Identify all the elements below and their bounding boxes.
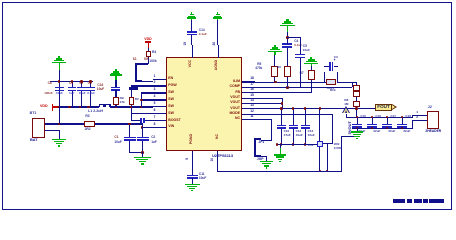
ground G2 green stem xyxy=(115,76,116,81)
pin name MODE (pin 12) xyxy=(222,112,240,116)
R4 bottom stub xyxy=(148,57,149,59)
AGND link to ground xyxy=(341,136,356,137)
ground G12 stem xyxy=(142,152,143,157)
connector BT1 type label BAT xyxy=(30,139,38,143)
cap C13 top stub xyxy=(305,109,306,125)
VOUT tie vertical xyxy=(282,98,283,109)
junction C17 bottom bus xyxy=(386,127,389,130)
capacitor C3 plates xyxy=(329,62,330,71)
ground G8 (C11) xyxy=(185,184,200,186)
junction C16b bottom bus xyxy=(371,127,374,130)
MODE drop vertical xyxy=(332,114,333,144)
pin name SW (pin 3) xyxy=(168,91,174,95)
pin 12 stub xyxy=(242,114,255,115)
capacitor C16 label xyxy=(97,84,103,87)
junction C1 top xyxy=(128,123,131,126)
capacitor C13 label xyxy=(308,130,314,133)
title text blob 2 xyxy=(407,199,412,202)
junction (VDD rail) xyxy=(87,106,90,109)
resistor R8a body (divider) xyxy=(353,85,360,91)
pin 4 stub xyxy=(153,99,167,100)
junction (VDD rail) xyxy=(79,106,82,109)
switch bracket bottom arm xyxy=(135,80,142,82)
capacitor C7 plates xyxy=(77,87,86,89)
C4 top stem xyxy=(287,32,288,44)
ferrite bead FB1 body xyxy=(317,141,323,148)
wire R3 to VIN jog xyxy=(95,123,142,124)
ground G7 stem navy xyxy=(280,144,281,149)
junction (cap top rail) xyxy=(80,80,83,83)
junction R5 riser row xyxy=(274,81,277,84)
J2 pin2 number xyxy=(416,116,418,119)
wire pin12 MODE xyxy=(255,114,332,115)
resistor R7 body xyxy=(308,70,315,81)
JP1 gnd drop xyxy=(266,156,267,161)
JP1 bracket top arm xyxy=(254,138,261,140)
VDD rail after L1 xyxy=(110,106,153,107)
capacitor C17 label xyxy=(390,115,396,118)
snubber C16 top wire xyxy=(115,80,116,87)
C4 bottom stub xyxy=(287,47,288,66)
resistor R3 value xyxy=(85,128,91,131)
cap C9 bottom stub xyxy=(72,90,73,106)
ground G5 green stem xyxy=(274,52,275,55)
jumper JP1 type label xyxy=(257,158,264,161)
wire pin3 SW xyxy=(141,92,153,93)
resistor R9 label xyxy=(120,97,124,100)
cap C12 top stub xyxy=(293,109,294,125)
junction C15 top bus xyxy=(356,116,359,119)
R4 top stub xyxy=(148,48,149,51)
junction VOUT tie mid xyxy=(281,102,284,105)
junction boost riser rail xyxy=(130,106,133,109)
pin 16 number xyxy=(250,88,254,91)
resistor R11 label xyxy=(334,143,340,146)
wire pin18 row to D1 xyxy=(275,82,327,83)
output top bus xyxy=(346,117,413,118)
pin name BOOST (pin 7) xyxy=(168,119,180,123)
ground G10 (AGND) xyxy=(217,12,218,14)
title text blob 3 xyxy=(414,199,422,202)
ground G7 stem green xyxy=(280,148,281,154)
capacitor C16 value xyxy=(97,88,104,91)
junction BT1 pin1 riser xyxy=(58,123,61,126)
pin 13 number xyxy=(250,104,254,107)
R2 bottom stub xyxy=(131,105,132,108)
pin name PGW (pin 2) xyxy=(168,84,176,88)
junction (VDD rail) xyxy=(140,106,143,109)
diode D1 label xyxy=(327,87,335,90)
capacitor C10 plates xyxy=(277,125,286,126)
pin 9 number xyxy=(186,158,189,160)
bead bottom drop xyxy=(319,147,320,171)
cap C13 bottom stub xyxy=(305,129,306,145)
cap C17 top stub xyxy=(387,117,388,124)
pin 20 number xyxy=(213,42,216,46)
capacitor C9 value xyxy=(69,92,74,95)
resistor R6 body xyxy=(284,66,291,77)
pin 15 number xyxy=(250,94,254,97)
pin name VCC xyxy=(189,60,193,67)
junction divider bus xyxy=(355,107,358,110)
resistor R9 value xyxy=(120,101,125,104)
pin 5 stub xyxy=(153,106,167,107)
junction input caps gnd xyxy=(141,151,144,154)
capacitor C5 plates xyxy=(295,54,305,56)
connector J2 body xyxy=(427,111,439,129)
capacitor C18 value xyxy=(403,130,410,133)
ILIM riser xyxy=(274,76,275,82)
junction C10 bus xyxy=(280,107,283,110)
junction C18 top bus xyxy=(401,116,404,119)
pin 15 stub xyxy=(242,98,255,99)
pin 19 number xyxy=(184,42,187,46)
capacitor C12 label xyxy=(296,130,302,133)
wire pin14 VOUT xyxy=(255,103,282,104)
inductor L1 hump2 right xyxy=(109,104,110,107)
snubber C16 to R9 wire xyxy=(115,90,116,97)
pin name NC bottom xyxy=(216,134,220,139)
C11 bottom stub xyxy=(192,178,193,184)
boost cap right wire xyxy=(145,120,153,121)
pin10 drop xyxy=(217,151,218,171)
wire pin4 SW xyxy=(141,99,153,100)
wire BT1 pin2 stub xyxy=(45,130,60,131)
cap C6 top stub xyxy=(90,81,91,87)
NC drop vertical xyxy=(271,119,272,141)
pin 1 stub xyxy=(153,79,167,80)
junction COMP riser xyxy=(286,86,289,89)
power port VDD text (EN) xyxy=(144,38,151,42)
capacitor C6 label xyxy=(88,82,92,85)
pin 16 stub xyxy=(242,92,255,93)
resistor R11 value xyxy=(334,147,341,150)
capacitor C3 plus sign xyxy=(334,59,336,62)
pin name VOUT (pin 14) xyxy=(222,101,240,105)
wire D1 to divider xyxy=(337,82,353,83)
cap C10 bottom stub xyxy=(281,129,282,145)
VCC wire lower xyxy=(191,35,192,45)
FB long jog vertical xyxy=(352,82,353,88)
junction SW tie pin4 xyxy=(140,99,143,102)
resistor R9 body (snubber) xyxy=(113,97,118,105)
pin name VOUT (pin 13) xyxy=(222,107,240,111)
pin name VIN (pin 8) xyxy=(168,125,174,129)
cap C1 top drop xyxy=(129,123,130,136)
pin 7 stub xyxy=(153,120,167,121)
pin name SW (pin 4) xyxy=(168,98,174,102)
J2 pin2 wire xyxy=(412,120,427,121)
junction VIN jog xyxy=(141,126,144,129)
wire BT1 pin1 to R3 xyxy=(45,123,85,124)
pin 3 stub xyxy=(153,92,167,93)
inductor L1 hump2 top xyxy=(105,104,111,105)
capacitor C4 value xyxy=(294,44,302,47)
cap C16b top stub xyxy=(372,117,373,124)
junction gnd bus left xyxy=(276,143,279,146)
VOUT bus xyxy=(255,108,375,109)
boost riser xyxy=(131,107,132,121)
capacitor C15 label xyxy=(360,115,366,118)
resistor R8b body (divider) xyxy=(353,91,360,97)
JP1 top pin wire xyxy=(261,140,272,141)
resistor R8 value xyxy=(344,103,348,106)
capacitor C2b plates xyxy=(137,137,149,139)
capacitor C17 value xyxy=(388,130,395,133)
divider mid link xyxy=(356,97,357,102)
connector BT1 body xyxy=(32,118,45,138)
op-amp U2 TPS6113x body xyxy=(166,57,242,151)
capacitor C12 value xyxy=(296,134,303,137)
capacitor C16b plates xyxy=(367,124,376,126)
J2 pin1 number xyxy=(416,111,418,114)
pin 5 number xyxy=(154,102,156,105)
junction C12 gnd bus xyxy=(292,143,295,146)
pin name FB (pin 16) xyxy=(222,91,240,95)
capacitor C16 label xyxy=(375,115,381,118)
C5 bottom wire xyxy=(300,58,301,87)
cap C12 bottom stub xyxy=(293,129,294,145)
ground G9 (VCC) xyxy=(191,12,192,14)
cap bank riser wire xyxy=(59,70,60,125)
junction (cap top rail) xyxy=(71,80,74,83)
boost cap left wire xyxy=(131,120,140,121)
junction C13 bus xyxy=(304,107,307,110)
resistor R3 label xyxy=(85,115,89,118)
switch S1 label xyxy=(133,58,137,61)
pin 10 number xyxy=(211,158,214,162)
resistor R4 label xyxy=(152,51,156,54)
junction C18 bottom bus xyxy=(401,127,404,130)
pin 11 number xyxy=(250,115,253,118)
junction C10 gnd bus xyxy=(280,143,283,146)
C3 bridge right vertical xyxy=(337,72,338,82)
JP1 bracket vertical xyxy=(254,138,256,157)
VCC wire upper xyxy=(191,20,192,31)
capacitor C1 value xyxy=(114,141,121,144)
capacitor C9 label xyxy=(69,82,73,85)
power net label vertical xyxy=(348,121,352,134)
capacitor C14 plates (VCC decoupling) xyxy=(187,31,197,33)
VOUT drop to bead xyxy=(319,109,320,141)
resistor R3 body xyxy=(84,121,95,127)
capacitor C10 value xyxy=(284,134,291,137)
capacitor C11 value xyxy=(199,177,206,180)
pin 6 number xyxy=(154,109,156,112)
pin 14 stub xyxy=(242,103,255,104)
wire VIN jog to pin8 xyxy=(142,127,153,128)
net label blob (pin2 net) xyxy=(129,87,138,90)
capacitor C5 value xyxy=(303,49,310,52)
capacitor C17 plates xyxy=(382,124,391,126)
capacitor C8 value xyxy=(44,92,53,95)
ground G3 green stem xyxy=(287,26,288,32)
wire pin18 ILIM xyxy=(255,82,275,83)
junction C13 gnd bus xyxy=(304,143,307,146)
ground G4 green stem xyxy=(311,64,312,67)
ground G5 (ILIM) xyxy=(274,45,276,47)
MODE to bead wire xyxy=(323,143,333,144)
inductor L1 value label xyxy=(88,110,103,114)
AGND rise right xyxy=(341,136,342,171)
connector J2 type label xyxy=(425,130,441,133)
pin name NC (pin 11) xyxy=(222,117,240,121)
pin 2 stub xyxy=(153,85,167,86)
cap C2b top drop xyxy=(142,127,143,136)
ground GR stem xyxy=(357,128,358,131)
junction C15 bottom bus xyxy=(356,127,359,130)
ground G4 (FB) xyxy=(310,57,312,59)
inductor L1 hump2 left xyxy=(105,104,106,107)
JP1 bottom pin wire xyxy=(261,156,267,157)
output gnd bus xyxy=(277,144,318,145)
capacitor C16 value xyxy=(373,130,380,133)
pin 6 stub xyxy=(153,113,167,114)
inductor L1 hump1 top xyxy=(99,104,105,105)
capacitor C8 value2 xyxy=(56,92,63,95)
ground G12 (input caps) xyxy=(134,157,152,159)
power port VOUT arrow xyxy=(342,106,350,113)
comp branch down to C5 xyxy=(300,37,301,54)
ground (battery, G11) xyxy=(52,139,66,141)
inductor L1 hump1 left xyxy=(99,104,100,107)
pin name COMP (pin 17) xyxy=(222,85,240,89)
pin 18 stub xyxy=(242,81,255,82)
R7 top stem xyxy=(311,66,312,70)
pin name PGND xyxy=(190,134,194,144)
J2 pin1 wire xyxy=(412,115,427,116)
capacitor C10 label xyxy=(284,130,290,133)
capacitor C15 value xyxy=(358,130,365,133)
J2 pin2 vertical xyxy=(412,120,413,128)
pin 17 stub xyxy=(242,87,255,88)
ground G9 stem xyxy=(191,19,192,21)
capacitor C6 value xyxy=(87,92,95,95)
ground G2 (snubber) xyxy=(115,69,117,71)
power port VDD stem (EN) xyxy=(148,43,149,49)
junction (VDD rail) xyxy=(58,106,61,109)
pin 4 number xyxy=(154,95,156,98)
junction (VDD rail) xyxy=(115,106,118,109)
ground G10 stem xyxy=(217,19,218,21)
pin9 drop xyxy=(192,151,193,175)
junction C16b top bus xyxy=(371,116,374,119)
junction VOUT tie bus xyxy=(281,107,284,110)
resistor R2 label xyxy=(135,98,139,101)
cap C6 bottom stub xyxy=(90,90,91,106)
input caps gnd bar xyxy=(129,152,143,153)
wire pin11 NC xyxy=(242,119,272,120)
capacitor C13 value xyxy=(308,134,315,137)
switch bracket top arm xyxy=(135,63,141,65)
capacitor C1 plates xyxy=(124,137,136,139)
R5 top stem xyxy=(274,54,275,66)
pin 14 number xyxy=(250,99,254,102)
ground (cap bank, G1) xyxy=(58,56,60,58)
pin 7 number xyxy=(154,116,156,119)
ground G6 (JP1) xyxy=(260,161,273,163)
junction (cap top rail) xyxy=(89,80,92,83)
ground G3 (comp) xyxy=(286,19,288,21)
junction VOUT drop bus xyxy=(319,107,322,110)
pin 1 number xyxy=(154,75,156,78)
capacitor C8 label xyxy=(48,82,52,85)
junction (VDD rail) xyxy=(68,106,71,109)
power port VDD bar (EN) xyxy=(145,41,151,42)
capacitor C13 plates xyxy=(301,125,310,126)
diode D1 body xyxy=(326,79,336,85)
SW tie vertical xyxy=(141,93,142,107)
J2 pin1 jog vertical xyxy=(412,115,413,117)
pin name ILIM (pin 18) xyxy=(222,80,240,84)
pin 8 stub xyxy=(153,127,167,128)
title text blob 5 xyxy=(429,199,444,202)
capacitor C3 label xyxy=(334,56,338,59)
pin name SW (pin 5) xyxy=(168,105,174,109)
capacitor C14 label xyxy=(199,29,205,32)
junction (cap top rail) xyxy=(58,80,61,83)
inductor L1 hump1 right xyxy=(103,104,104,107)
cap C7 top stub xyxy=(81,81,82,87)
port FOUT text xyxy=(377,105,390,110)
capacitor C2 (boost) plates xyxy=(140,118,141,124)
pin 12 number xyxy=(250,110,254,113)
capacitor C12 plates xyxy=(289,125,298,126)
cap C7 bottom stub xyxy=(81,90,82,106)
comp branch horizontal xyxy=(287,37,301,38)
junction (VDD rail) xyxy=(130,106,133,109)
junction bead branch bottom xyxy=(326,170,329,173)
junction C12 bus xyxy=(292,107,295,110)
power port VOUT stem xyxy=(346,114,347,117)
resistor R8c body (divider) xyxy=(353,101,360,107)
C3 bridge right stub xyxy=(334,66,339,67)
capacitor C8 plates xyxy=(55,87,64,89)
capacitor C4 plates xyxy=(282,43,292,45)
bead FB1 label xyxy=(308,144,314,147)
C3 bridge left stub xyxy=(324,66,330,67)
cap C2b bottom drop xyxy=(142,141,143,153)
bead branch down xyxy=(327,144,328,171)
wire pin6 xyxy=(131,113,153,114)
resistor R7 label xyxy=(300,72,304,75)
cap C18 top stub xyxy=(402,117,403,124)
AGND long wire xyxy=(217,171,342,172)
title text blob 4 xyxy=(423,199,428,202)
cap C1 bottom drop xyxy=(129,141,130,153)
capacitor C1 label xyxy=(114,136,118,139)
pin 13 stub xyxy=(242,108,255,109)
wire BT1 pin1 riser to VDD rail xyxy=(59,107,60,124)
pin name EN (pin 1) xyxy=(168,77,173,81)
pin 19 VCC stub xyxy=(192,45,193,58)
resistor R4 body xyxy=(146,51,151,57)
ground GR (output bank) xyxy=(351,131,364,133)
resistor R5 label xyxy=(257,63,261,66)
resistor R5 body xyxy=(271,66,278,77)
capacitor C9 plates xyxy=(68,87,77,89)
pin 8 number xyxy=(154,123,156,126)
output bottom bus xyxy=(352,128,413,129)
pin name SW (pin 6) xyxy=(168,112,174,116)
junction comp branch xyxy=(286,36,289,39)
capacitor C14 value xyxy=(199,33,207,36)
power port VDD bar xyxy=(52,104,53,111)
divider top jog horizontal xyxy=(352,82,357,83)
power port VDD text (left) xyxy=(40,105,48,109)
connector J2 label xyxy=(428,106,432,110)
COMP riser xyxy=(287,76,288,87)
